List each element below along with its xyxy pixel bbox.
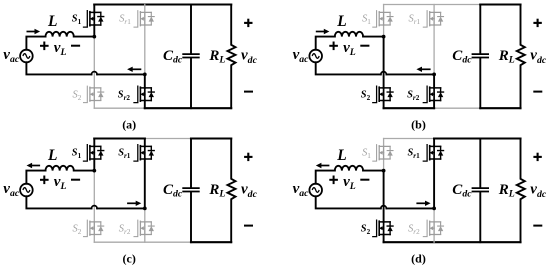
transistor Sr1 — [134, 11, 154, 27]
arrow return current — [127, 202, 137, 204]
node leg2 junction — [432, 207, 436, 211]
wire top DC+ rail segment c0 — [145, 138, 191, 140]
wire vac top to inductor — [26, 37, 45, 50]
transistor Sr2 — [423, 220, 443, 236]
resistor RL — [228, 5, 236, 109]
wire leg1 drain/source of S1 — [383, 5, 385, 37]
wire bottom DC- rail segment a0 — [94, 107, 145, 109]
node leg2 junction — [432, 73, 436, 77]
wire leg1 S2 drain (through crossover) and source — [383, 171, 385, 243]
wire leg2 Sr2 drain and source — [144, 208, 146, 242]
wire top DC+ rail segment b1 — [480, 3, 520, 5]
resistor RL — [517, 139, 525, 243]
wire vac bottom to crossover — [26, 62, 91, 74]
label - of vL — [360, 179, 369, 181]
ac source Vac — [309, 184, 322, 197]
wire inductor to leg1 junction — [74, 36, 95, 38]
inductor L — [46, 32, 74, 37]
wire leg2 Sr2 drain and source — [433, 74, 435, 108]
wire crossover to leg2 junction — [97, 73, 145, 75]
wire bottom DC- rail segment a1 — [145, 107, 231, 109]
wire leg1 drain/source of S1 — [93, 5, 95, 37]
label + of vdc — [533, 22, 541, 24]
node leg1 junction — [92, 35, 96, 39]
node leg1 junction — [382, 35, 386, 39]
node leg1 junction — [92, 169, 96, 173]
wire vac top to inductor — [316, 37, 335, 50]
wire inductor to leg1 junction — [74, 170, 95, 172]
wire top DC+ rail segment a0 — [94, 3, 231, 5]
wire leg1 drain/source of S1 — [383, 139, 385, 171]
label - of vL — [71, 45, 80, 47]
wire leg1 drain/source of S1 — [93, 139, 95, 171]
wire leg2 Sr2 drain and source — [144, 74, 146, 108]
label - of vdc — [244, 225, 253, 227]
capacitor Cdc — [190, 139, 192, 243]
ac source Vac — [20, 184, 33, 197]
transistor Sr1 — [423, 11, 443, 27]
arrow return current — [421, 68, 431, 70]
arrow input current — [27, 31, 36, 33]
wire leg1 S2 drain (through crossover) and source — [383, 37, 385, 109]
resistor RL — [228, 139, 236, 243]
capacitor Cdc — [479, 5, 481, 109]
wire leg2 Sr1 drain and source — [433, 5, 435, 75]
wire top DC+ rail segment c2 — [191, 137, 231, 139]
label + of vL — [329, 45, 338, 47]
svg-text:L: L — [336, 13, 346, 30]
transistor Sr2 — [423, 86, 443, 102]
wire leg1 S2 drain (through crossover) and source — [93, 37, 95, 109]
wire bottom DC- rail segment b1 — [384, 107, 435, 109]
wire vac bottom to crossover — [316, 196, 381, 208]
transistor S1 — [373, 145, 393, 161]
ac source Vac — [309, 50, 322, 63]
inductor L — [46, 166, 74, 171]
wire crossover to leg2 junction — [97, 207, 145, 209]
label + of vdc — [244, 156, 252, 158]
arrow return current — [132, 68, 142, 70]
wire crossover to leg2 junction — [386, 207, 434, 209]
node leg2 junction — [143, 207, 147, 211]
transistor Sr2 — [134, 220, 154, 236]
wire top DC+ rail segment c1 — [94, 137, 145, 139]
wire inductor to leg1 junction — [363, 170, 384, 172]
capacitor Cdc — [190, 5, 192, 109]
wire crossover hop — [381, 206, 387, 209]
label + of vL — [329, 179, 338, 181]
ac source Vac — [20, 50, 33, 63]
transistor S1 — [84, 145, 104, 161]
wire crossover to leg2 junction — [386, 73, 434, 75]
transistor Sr1 — [134, 145, 154, 161]
wire inductor to leg1 junction — [363, 36, 384, 38]
wire vac bottom to crossover — [26, 196, 91, 208]
svg-text:(d): (d) — [411, 252, 426, 266]
arrow input current — [31, 165, 40, 167]
wire top DC+ rail segment d0 — [384, 138, 435, 140]
wire leg2 Sr1 drain and source — [144, 5, 146, 75]
wire leg2 Sr2 drain and source — [433, 208, 435, 242]
svg-text:(c): (c) — [123, 252, 136, 266]
wire leg2 Sr1 drain and source — [433, 139, 435, 209]
wire top DC+ rail segment d1 — [434, 137, 520, 139]
transistor Sr1 — [423, 145, 443, 161]
wire leg1 S2 drain (through crossover) and source — [93, 171, 95, 243]
svg-text:L: L — [47, 147, 57, 164]
svg-text:L: L — [47, 13, 57, 30]
wire crossover hop — [92, 206, 98, 209]
wire bottom DC- rail segment c0 — [94, 241, 191, 243]
transistor S1 — [373, 11, 393, 27]
wire vac top to inductor — [26, 171, 45, 184]
transistor S1 — [84, 11, 104, 27]
svg-text:(b): (b) — [411, 118, 426, 132]
wire bottom DC- rail segment d0 — [384, 241, 521, 243]
label - of vL — [71, 179, 80, 181]
label + of vL — [40, 45, 49, 47]
transistor Sr2 — [134, 86, 154, 102]
wire bottom DC- rail segment b0 — [434, 107, 480, 109]
arrow input current — [320, 165, 329, 167]
label - of vdc — [244, 91, 253, 93]
arrow input current — [316, 31, 325, 33]
label - of vdc — [533, 225, 542, 227]
wire vac top to inductor — [316, 171, 335, 184]
label - of vL — [360, 45, 369, 47]
inductor L — [335, 166, 363, 171]
svg-text:L: L — [336, 147, 346, 164]
wire vac bottom to crossover — [316, 62, 381, 74]
transistor S2 — [84, 86, 104, 102]
wire crossover hop — [381, 72, 387, 75]
wire top DC+ rail segment b0 — [384, 4, 481, 6]
label + of vL — [40, 179, 49, 181]
wire bottom DC- rail segment c1 — [191, 241, 231, 243]
transistor S2 — [373, 86, 393, 102]
node leg1 junction — [382, 169, 386, 173]
wire bottom DC- rail segment b2 — [480, 107, 520, 109]
wire crossover hop — [92, 72, 98, 75]
label - of vdc — [533, 91, 542, 93]
capacitor Cdc — [479, 139, 481, 243]
inductor L — [335, 32, 363, 37]
label + of vdc — [533, 156, 541, 158]
transistor S2 — [373, 220, 393, 236]
resistor RL — [517, 5, 525, 109]
svg-text:(a): (a) — [122, 118, 136, 132]
transistor S2 — [84, 220, 104, 236]
label + of vdc — [244, 22, 252, 24]
wire leg2 Sr1 drain and source — [144, 139, 146, 209]
node leg2 junction — [143, 73, 147, 77]
arrow return current — [416, 202, 426, 204]
